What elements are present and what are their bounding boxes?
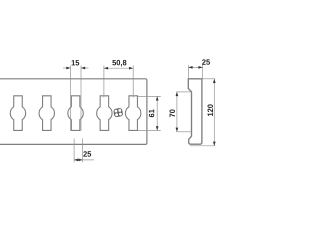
dim 70: dimension line [176, 92, 178, 132]
dim 120: extension lines [203, 78, 216, 80]
dim 61: value (rotated) [149, 109, 154, 117]
dim 61: extension lines [138, 95, 161, 97]
dim 50,8: value [112, 60, 126, 67]
dim 15: extension lines [70, 66, 72, 131]
dim 25 top: value [202, 59, 210, 64]
dim 61: dimension line [156, 96, 158, 130]
dim 120: dimension line [213, 79, 215, 146]
C-profile cross-section [188, 79, 202, 144]
slot keyhole at x=18.0 [10, 96, 25, 131]
dim 15: value [72, 60, 80, 65]
rail front view (top/bottom edges + right end) [0, 79, 147, 145]
slot keyhole at x=75.6 [68, 96, 83, 131]
dim 70: extension lines [176, 91, 191, 93]
dim 70: value (rotated) [170, 109, 175, 117]
dim 25 bottom: dimension line with arrows [74, 159, 94, 161]
dim 120: value (rotated) [208, 104, 213, 116]
stamped logo mark between last slots [113, 108, 123, 118]
dim 15: dimension line with outside arrows [63, 67, 71, 69]
slot keyhole at x=46.8 [39, 96, 54, 131]
slot keyhole at x=104.4 [97, 96, 112, 131]
dim 50,8: dimension line [104, 67, 133, 69]
slot keyhole at x=133.2 [125, 96, 140, 131]
dim 50,8: extension lines [103, 66, 105, 98]
dim 25 bottom: extension lines [73, 139, 75, 163]
dim 25 top: dimension line [188, 66, 202, 68]
dim 25 bottom: value [83, 151, 91, 156]
dim 25 top: extension lines [187, 65, 189, 78]
